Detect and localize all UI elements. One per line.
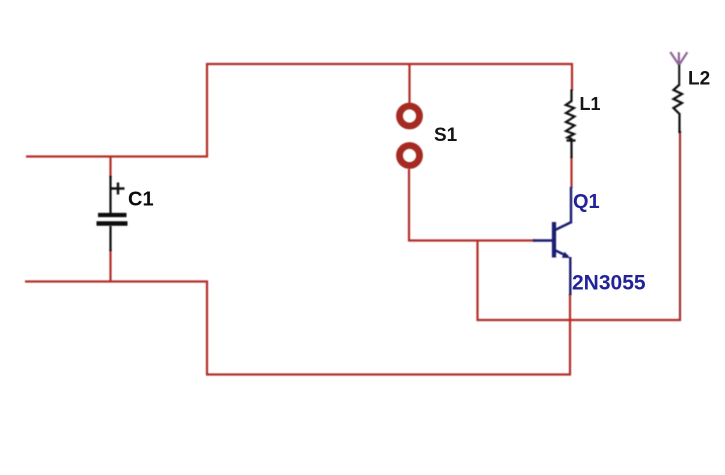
svg-text:S1: S1 [434, 125, 458, 146]
svg-text:L1: L1 [580, 94, 601, 114]
wire: L1 to collector red segment [570, 157, 572, 188]
switch S1 terminal (bottom circle) [400, 146, 420, 166]
capacitor C1 bottom plate [97, 221, 128, 225]
svg-text:Q1: Q1 [573, 191, 600, 213]
wire: S1 lower lead [408, 169, 410, 242]
wire: L2 bottom black lead [678, 113, 680, 133]
wire: bottom return rail [206, 373, 571, 375]
wire: left riser x=207 [206, 64, 208, 158]
wire: L1 bottom black lead [570, 138, 572, 158]
capacitor C1 bottom black lead [109, 226, 111, 251]
wire: left bottom riser x=207 [206, 281, 208, 376]
wire: top-left horizontal rail [26, 155, 208, 157]
svg-text:C1: C1 [128, 189, 154, 211]
transistor Q1 base lead [533, 239, 553, 241]
svg-text:L2: L2 [688, 69, 710, 90]
antenna symbol [670, 52, 679, 65]
plus polarity mark [112, 187, 125, 189]
svg-text:2N3055: 2N3055 [572, 272, 646, 295]
wire: L1 top lead [571, 63, 573, 91]
inductor L1 coil [566, 90, 576, 141]
wire: L2 vertical [679, 131, 681, 321]
wire: lower horizontal to antenna [477, 319, 682, 321]
wire: bottom-left horizontal rail [25, 280, 208, 282]
transistor Q1 base bar [552, 222, 556, 258]
transistor Q1 emitter lead [569, 257, 571, 295]
wire: S1 upper lead [408, 64, 410, 103]
transistor Q1 emitter arrowhead [562, 252, 570, 258]
wire: base feed horizontal [408, 239, 534, 241]
capacitor C1 top plate [98, 213, 127, 217]
capacitor C1 top black lead [109, 176, 111, 214]
wire: C1 top red lead [109, 156, 111, 177]
wire: antenna stem [678, 65, 680, 87]
transistor Q1 collector lead [570, 187, 572, 224]
switch S1 terminal (top circle) [400, 106, 420, 126]
wire: feedback drop x=477 [476, 241, 478, 322]
inductor L2 coil [674, 85, 683, 114]
wire: top supply rail [206, 63, 573, 65]
wire: C1 bottom red lead [109, 250, 111, 282]
transistor Q1 collector diagonal [555, 223, 571, 231]
transistor Q1 emitter diagonal [556, 251, 569, 257]
wire: emitter to ground rail [569, 294, 571, 376]
